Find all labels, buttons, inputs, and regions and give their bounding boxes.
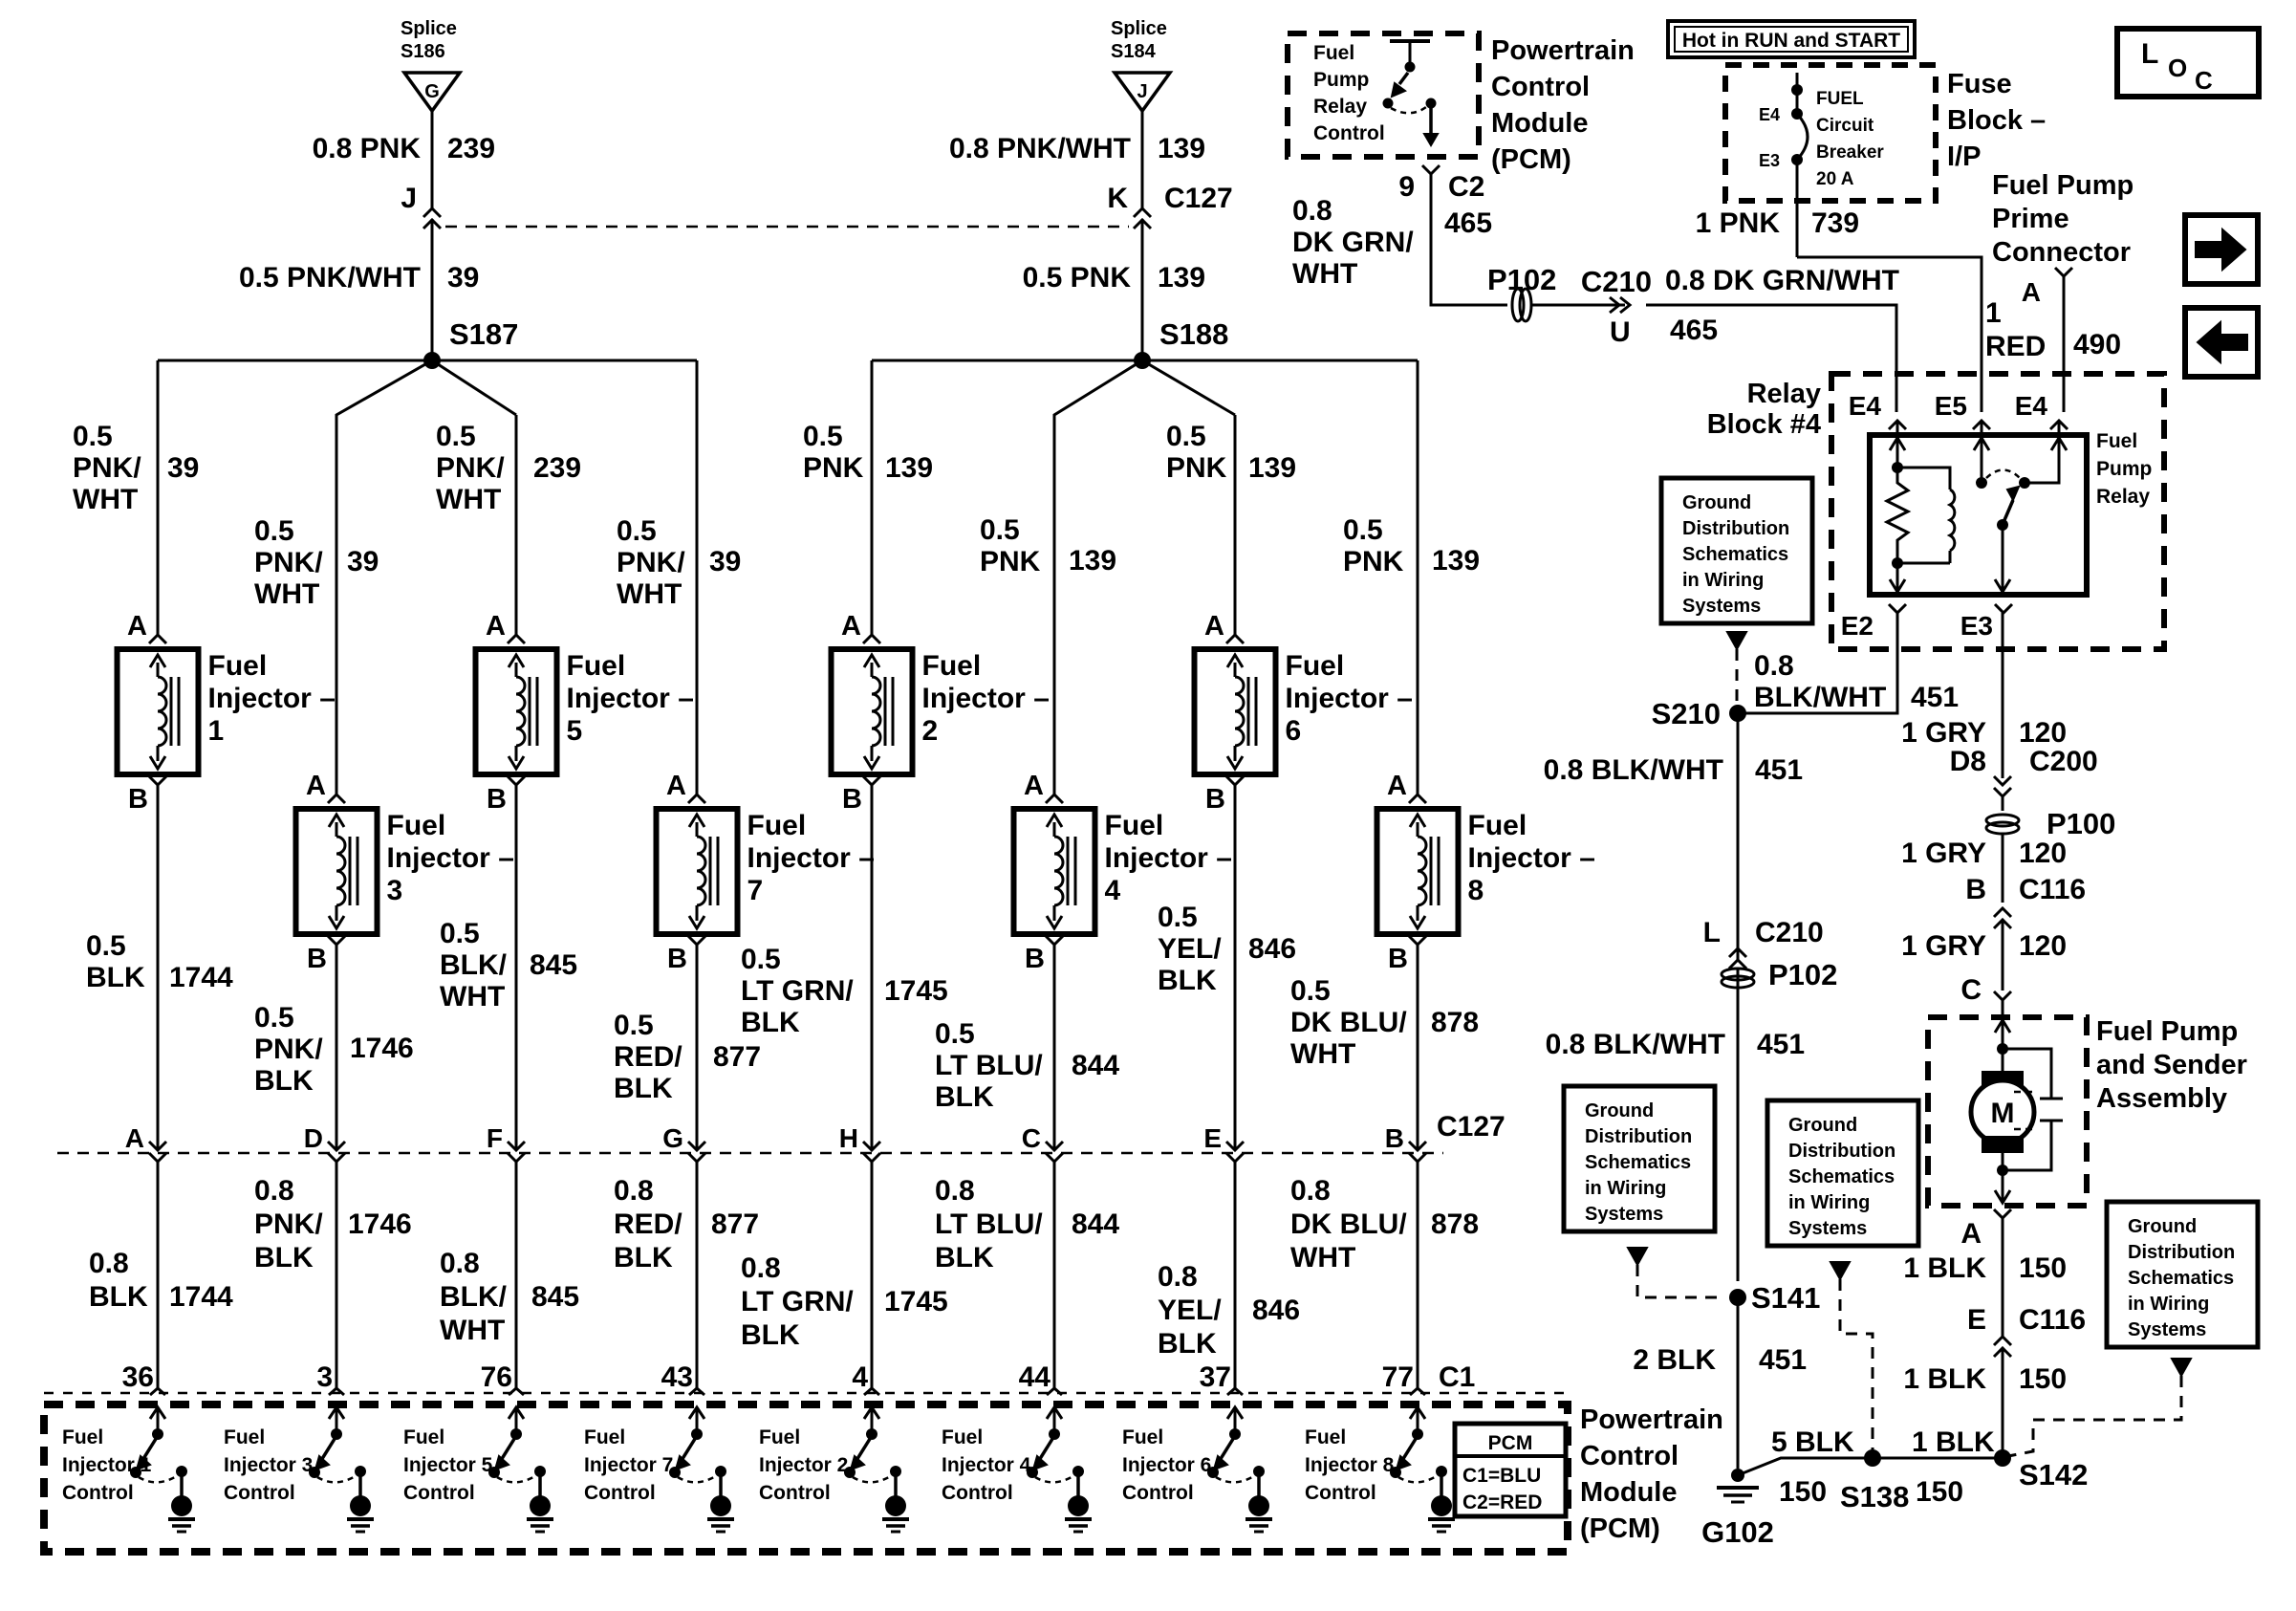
svg-text:Control: Control xyxy=(62,1482,134,1504)
svg-text:845: 845 xyxy=(530,949,577,981)
svg-text:0.5: 0.5 xyxy=(741,944,781,975)
wire 120 P100 to C116 xyxy=(2002,834,2004,903)
svg-text:Ground: Ground xyxy=(1682,492,1751,513)
wire 1 GRY 120 to fuel pump xyxy=(2002,920,2004,991)
label col3 0.5 PNK/WHT 39 xyxy=(254,515,379,610)
wire 451 to P102 xyxy=(1737,969,1740,1281)
wire C127 to PCM pin col8 xyxy=(1417,1162,1419,1388)
svg-text:Breaker: Breaker xyxy=(1816,142,1884,163)
svg-text:(PCM): (PCM) xyxy=(1491,144,1571,175)
svg-text:0.8 BLK/WHT: 0.8 BLK/WHT xyxy=(1544,754,1723,786)
svg-text:C200: C200 xyxy=(2029,746,2098,777)
svg-text:DK BLU/: DK BLU/ xyxy=(1290,1208,1407,1240)
svg-text:Control: Control xyxy=(1122,1482,1194,1504)
fuel pump prime connector pin A xyxy=(2022,268,2072,307)
svg-text:0.8: 0.8 xyxy=(1754,650,1794,682)
svg-text:0.5: 0.5 xyxy=(86,930,126,962)
svg-text:A: A xyxy=(486,611,506,642)
svg-text:Fuel: Fuel xyxy=(759,1426,800,1448)
triangle leader to S210 xyxy=(1727,632,1746,708)
svg-text:Control: Control xyxy=(942,1482,1013,1504)
svg-text:Fuel: Fuel xyxy=(1305,1426,1346,1448)
svg-text:Injector 4: Injector 4 xyxy=(942,1454,1031,1476)
svg-text:PNK/: PNK/ xyxy=(254,1034,323,1065)
svg-text:A: A xyxy=(1204,611,1224,642)
svg-text:A: A xyxy=(1960,1218,1982,1250)
svg-text:BLK/WHT: BLK/WHT xyxy=(1754,682,1886,713)
svg-text:in Wiring: in Wiring xyxy=(1788,1192,1870,1213)
svg-text:878: 878 xyxy=(1431,1007,1479,1038)
svg-text:1744: 1744 xyxy=(169,962,233,993)
label 0.5 PNK/BLK 1746 xyxy=(254,1002,414,1097)
svg-text:and Sender: and Sender xyxy=(2096,1050,2247,1080)
label 0.8 PNK/BLK 1746 xyxy=(254,1175,412,1274)
svg-text:BLK: BLK xyxy=(741,1007,800,1038)
wire S188 bus down col2 xyxy=(871,360,874,635)
splice S188 node xyxy=(1134,317,1228,369)
svg-text:36: 36 xyxy=(122,1361,154,1393)
svg-text:1 BLK: 1 BLK xyxy=(1903,1252,1986,1284)
ground distribution box left xyxy=(1564,1086,1715,1231)
svg-text:DK BLU/: DK BLU/ xyxy=(1290,1007,1407,1038)
svg-text:0.5: 0.5 xyxy=(935,1018,975,1050)
svg-text:5 BLK: 5 BLK xyxy=(1771,1426,1854,1458)
relay pins E2 E3 xyxy=(1841,604,2012,641)
svg-text:0.8: 0.8 xyxy=(1292,195,1332,227)
svg-text:PNK: PNK xyxy=(1343,546,1404,577)
svg-text:Schematics: Schematics xyxy=(1682,544,1788,565)
svg-text:C1=BLU: C1=BLU xyxy=(1462,1465,1541,1487)
svg-text:BLK: BLK xyxy=(86,962,145,993)
svg-text:1746: 1746 xyxy=(348,1208,412,1240)
svg-text:PNK: PNK xyxy=(1166,452,1227,484)
svg-text:0.8: 0.8 xyxy=(440,1248,480,1279)
svg-text:6: 6 xyxy=(1286,715,1302,747)
branch wire S188 to col4 xyxy=(1054,360,1142,795)
svg-text:S186: S186 xyxy=(401,41,445,62)
label E4 E3 fuse xyxy=(1759,105,1780,170)
svg-text:1744: 1744 xyxy=(169,1281,233,1313)
svg-text:1 GRY: 1 GRY xyxy=(1901,717,1986,749)
svg-text:LT GRN/: LT GRN/ xyxy=(741,975,854,1007)
svg-text:0.5: 0.5 xyxy=(73,421,113,452)
svg-text:BLK: BLK xyxy=(935,1242,994,1274)
label 0.8 BLK/WHT 451 bottom xyxy=(1546,1029,1805,1060)
svg-text:139: 139 xyxy=(885,452,933,484)
bus wire left from S187 xyxy=(158,359,697,362)
fuel injector 3 control switch xyxy=(309,1407,374,1532)
wire 1 BLK 150 to S142 xyxy=(2002,1348,2004,1458)
svg-text:8: 8 xyxy=(1468,875,1484,906)
svg-text:0.8 BLK/WHT: 0.8 BLK/WHT xyxy=(1546,1029,1725,1060)
svg-text:PNK/: PNK/ xyxy=(617,547,685,578)
label 1 GRY 120 b xyxy=(1901,838,2067,869)
svg-text:239: 239 xyxy=(447,133,495,164)
svg-text:0.8: 0.8 xyxy=(89,1248,129,1279)
svg-text:BLK: BLK xyxy=(89,1281,148,1313)
label 1 GRY 120 c xyxy=(1901,930,2067,962)
svg-text:C116: C116 xyxy=(2019,1304,2086,1336)
svg-text:WHT: WHT xyxy=(1290,1038,1355,1070)
label fuel injector 6 control xyxy=(1122,1426,1211,1504)
label powertrain control module top xyxy=(1491,35,1635,175)
svg-text:0.5 PNK/WHT: 0.5 PNK/WHT xyxy=(239,262,421,294)
label col1 0.5 PNK/WHT 39 xyxy=(73,421,199,515)
svg-text:Assembly: Assembly xyxy=(2096,1083,2227,1114)
hot in run and start box xyxy=(1668,21,1915,57)
svg-text:RED/: RED/ xyxy=(614,1208,682,1240)
svg-text:B: B xyxy=(1385,1123,1404,1153)
svg-text:877: 877 xyxy=(711,1208,759,1240)
label 1 BLK 150 a xyxy=(1903,1252,2067,1284)
svg-text:C127: C127 xyxy=(1437,1111,1505,1143)
svg-text:B: B xyxy=(1388,944,1408,974)
svg-text:5: 5 xyxy=(567,715,583,747)
svg-text:0.5: 0.5 xyxy=(436,421,476,452)
svg-text:139: 139 xyxy=(1069,545,1116,577)
svg-text:1745: 1745 xyxy=(884,1286,948,1317)
svg-text:7: 7 xyxy=(747,875,764,906)
svg-text:0.5: 0.5 xyxy=(440,918,480,949)
svg-text:3: 3 xyxy=(316,1361,333,1393)
svg-text:Injector –: Injector – xyxy=(1468,842,1595,874)
svg-text:P102: P102 xyxy=(1768,958,1837,991)
label 0.8 DK GRN/WHT 465 xyxy=(1292,195,1492,290)
svg-text:E: E xyxy=(1967,1304,1986,1336)
relay block 4 dashed box xyxy=(1831,374,2164,649)
svg-text:Distribution: Distribution xyxy=(1682,518,1789,539)
svg-text:Systems: Systems xyxy=(2128,1319,2206,1340)
fuel injector 2 control switch xyxy=(844,1407,909,1532)
label 0.8 LT BLU/BLK 844 xyxy=(935,1175,1119,1274)
svg-text:S141: S141 xyxy=(1751,1281,1820,1315)
splice S184 triangle xyxy=(1111,18,1170,111)
label fuel injector 2 control xyxy=(759,1426,848,1504)
label 0.8 PNK 239 xyxy=(313,133,495,164)
svg-text:Fuel: Fuel xyxy=(403,1426,444,1448)
svg-text:878: 878 xyxy=(1431,1208,1479,1240)
fuel pump relay xyxy=(1870,421,2087,595)
svg-text:877: 877 xyxy=(713,1041,761,1073)
label 0.8 BLK/WHT 845 xyxy=(440,1248,579,1346)
label 0.8 BLK/WHT 451 E2 xyxy=(1754,650,1959,713)
svg-text:739: 739 xyxy=(1811,207,1859,239)
svg-text:Fuel: Fuel xyxy=(62,1426,103,1448)
svg-text:Injector 6: Injector 6 xyxy=(1122,1454,1211,1476)
svg-text:PNK/: PNK/ xyxy=(254,547,323,578)
page nav right arrow box xyxy=(2185,215,2258,284)
svg-text:0.5: 0.5 xyxy=(1290,975,1331,1007)
svg-text:150: 150 xyxy=(2019,1363,2067,1395)
svg-text:44: 44 xyxy=(1019,1361,1051,1393)
splice S187 node xyxy=(423,317,518,369)
svg-text:1 GRY: 1 GRY xyxy=(1901,930,1986,962)
svg-text:WHT: WHT xyxy=(617,578,682,610)
svg-text:DK GRN/: DK GRN/ xyxy=(1292,227,1414,258)
svg-text:0.5: 0.5 xyxy=(1158,902,1198,933)
label fuel pump relay xyxy=(2096,430,2152,508)
ground distribution box middle xyxy=(1767,1100,1918,1246)
svg-text:Relay: Relay xyxy=(1747,379,1821,409)
fuel injector 1 xyxy=(118,611,336,815)
svg-text:Fuel: Fuel xyxy=(584,1426,625,1448)
PCM pin 9 C2 connector xyxy=(1398,165,1484,203)
svg-text:Systems: Systems xyxy=(1585,1204,1663,1225)
svg-text:490: 490 xyxy=(2073,329,2121,360)
label col7 0.5 PNK/WHT 39 xyxy=(617,515,741,610)
label 0.8 BLK/WHT 451 below S210 xyxy=(1544,754,1803,786)
branch wire S187 to col3 xyxy=(336,360,432,795)
svg-text:Control: Control xyxy=(403,1482,475,1504)
svg-text:Schematics: Schematics xyxy=(1788,1166,1895,1187)
svg-text:C116: C116 xyxy=(2019,874,2086,905)
svg-text:B: B xyxy=(667,944,687,974)
fuel pump assembly dashed box xyxy=(1928,1017,2087,1206)
fuel injector 7 xyxy=(657,771,875,974)
svg-text:S138: S138 xyxy=(1840,1480,1909,1513)
svg-text:Fuel: Fuel xyxy=(1122,1426,1163,1448)
svg-text:451: 451 xyxy=(1759,1344,1807,1376)
svg-text:Connector: Connector xyxy=(1992,237,2131,268)
fuel injector 3 xyxy=(296,771,514,974)
svg-text:E5: E5 xyxy=(1935,391,1967,421)
svg-text:39: 39 xyxy=(447,262,479,294)
svg-text:4: 4 xyxy=(1105,875,1121,906)
label fuel injector 8 control xyxy=(1305,1426,1395,1504)
svg-text:0.8: 0.8 xyxy=(741,1252,781,1284)
wire 465 C210 to relay E4 xyxy=(1646,305,1896,412)
svg-text:0.5: 0.5 xyxy=(254,1002,294,1034)
svg-text:844: 844 xyxy=(1072,1050,1119,1081)
fuel injector 1 control switch xyxy=(130,1407,195,1532)
svg-text:B: B xyxy=(307,944,327,974)
triangle leader to S141 xyxy=(1628,1248,1725,1297)
svg-text:Injector 2: Injector 2 xyxy=(759,1454,848,1476)
svg-text:A: A xyxy=(841,611,861,642)
label 1 RED 490 xyxy=(1985,297,2121,362)
ground G102 xyxy=(1701,1469,1774,1549)
label fuel injector 3 control xyxy=(224,1426,313,1504)
svg-text:Injector 1: Injector 1 xyxy=(62,1454,152,1476)
svg-text:WHT: WHT xyxy=(440,1315,505,1346)
connector C116 pin B xyxy=(1965,874,2086,928)
svg-text:C2=RED: C2=RED xyxy=(1462,1491,1542,1513)
svg-text:WHT: WHT xyxy=(1292,258,1357,290)
label 0.5 PNK/WHT 39 xyxy=(239,262,479,294)
label 1 BLK 150 bottom xyxy=(1912,1426,1995,1508)
ground distribution box right xyxy=(2107,1202,2258,1347)
svg-text:0.8: 0.8 xyxy=(614,1175,654,1207)
label 0.5 YEL/BLK 846 xyxy=(1158,902,1296,996)
wire 0.5 PNK 139 to S188 xyxy=(1141,219,1144,360)
svg-text:Injector –: Injector – xyxy=(1286,683,1413,714)
branch wire S188 to col6 xyxy=(1142,360,1235,635)
svg-text:S187: S187 xyxy=(449,317,518,351)
label 0.8 PNK/WHT 139 xyxy=(949,133,1205,164)
wire S187 bus down col7 xyxy=(696,360,699,795)
svg-text:C: C xyxy=(2195,66,2213,95)
svg-text:C210: C210 xyxy=(1581,265,1652,298)
svg-text:451: 451 xyxy=(1911,682,1959,713)
svg-text:B: B xyxy=(1025,944,1045,974)
svg-text:C210: C210 xyxy=(1755,917,1824,948)
label fuse block I/P xyxy=(1947,69,2046,172)
svg-text:9: 9 xyxy=(1398,171,1415,203)
wire injector 7 pin B to C127 xyxy=(696,945,699,1149)
svg-text:D8: D8 xyxy=(1950,746,1986,777)
wire 739 fuse to relay E5 xyxy=(1797,257,1982,412)
page locator LOC box xyxy=(2117,29,2259,97)
svg-text:I/P: I/P xyxy=(1947,142,1981,172)
svg-text:Distribution: Distribution xyxy=(2128,1242,2235,1263)
svg-text:Fuel: Fuel xyxy=(567,650,626,682)
label fuel pump prime connector xyxy=(1992,170,2134,268)
svg-text:0.8: 0.8 xyxy=(935,1175,975,1207)
svg-text:1745: 1745 xyxy=(884,975,948,1007)
fuel injector 4 xyxy=(1014,771,1232,974)
svg-text:0.8: 0.8 xyxy=(1158,1261,1198,1293)
svg-text:Schematics: Schematics xyxy=(1585,1152,1691,1173)
label fuel pump relay control xyxy=(1313,42,1385,144)
svg-text:37: 37 xyxy=(1200,1361,1231,1393)
wire S187 bus down col1 xyxy=(157,360,160,635)
svg-text:PCM: PCM xyxy=(1488,1432,1533,1454)
svg-text:2: 2 xyxy=(922,715,939,747)
svg-text:A: A xyxy=(1024,771,1044,801)
svg-text:0.5: 0.5 xyxy=(1343,514,1383,546)
fuel pump connector pin C xyxy=(1960,974,2011,1006)
svg-text:BLK: BLK xyxy=(254,1242,314,1274)
svg-text:0.8 PNK: 0.8 PNK xyxy=(313,133,422,164)
svg-text:Prime: Prime xyxy=(1992,204,2069,234)
svg-text:Systems: Systems xyxy=(1682,596,1761,617)
svg-text:WHT: WHT xyxy=(440,981,505,1012)
svg-text:S184: S184 xyxy=(1111,41,1157,62)
svg-text:Injector –: Injector – xyxy=(208,683,336,714)
fuel injector 6 control switch xyxy=(1207,1407,1272,1532)
svg-text:Injector 8: Injector 8 xyxy=(1305,1454,1395,1476)
svg-text:BLK: BLK xyxy=(254,1065,314,1097)
relay block pin labels E4 E5 E4 xyxy=(1849,391,2068,429)
wire S188 bus down col8 xyxy=(1417,360,1419,795)
svg-text:120: 120 xyxy=(2019,838,2067,869)
wire 465 P102 to C210 xyxy=(1531,304,1625,307)
svg-text:in Wiring: in Wiring xyxy=(1682,570,1764,591)
label 0.5 LT BLU/BLK 844 xyxy=(935,1018,1119,1113)
splice S141 xyxy=(1729,1281,1820,1315)
svg-text:Control: Control xyxy=(584,1482,656,1504)
svg-text:G: G xyxy=(662,1123,683,1153)
svg-text:Injector 7: Injector 7 xyxy=(584,1454,673,1476)
connector C116 pin E xyxy=(1967,1304,2086,1357)
connector C1 dashed line with pin numbers xyxy=(44,1361,1568,1395)
connector C127 pin J chevrons xyxy=(401,183,441,229)
label 0.8 LT GRN/BLK 1745 xyxy=(741,1252,948,1351)
svg-text:Powertrain: Powertrain xyxy=(1580,1404,1723,1435)
svg-text:Fuel: Fuel xyxy=(922,650,982,682)
label 1 GRY 120 a xyxy=(1901,717,2067,749)
svg-text:E: E xyxy=(1203,1123,1222,1153)
ground distribution box top xyxy=(1661,478,1812,623)
svg-text:PNK/: PNK/ xyxy=(436,452,505,484)
svg-text:G: G xyxy=(424,81,440,102)
svg-text:B: B xyxy=(842,784,862,815)
svg-text:S188: S188 xyxy=(1159,317,1228,351)
svg-text:A: A xyxy=(306,771,326,801)
label 0.8 DK GRN/WHT right xyxy=(1665,265,1899,346)
svg-text:S210: S210 xyxy=(1652,697,1721,730)
wire 0.8 DK GRN/WHT 465 xyxy=(1431,174,1507,305)
connector C210 pin L xyxy=(1703,917,1824,969)
svg-text:U: U xyxy=(1610,316,1631,348)
svg-text:PNK/: PNK/ xyxy=(73,452,141,484)
svg-text:A: A xyxy=(2022,277,2041,307)
svg-text:LT GRN/: LT GRN/ xyxy=(741,1286,854,1317)
svg-text:in Wiring: in Wiring xyxy=(1585,1178,1666,1199)
svg-text:G102: G102 xyxy=(1701,1515,1774,1549)
svg-text:Pump: Pump xyxy=(2096,458,2152,480)
svg-text:A: A xyxy=(1387,771,1407,801)
svg-text:0.8: 0.8 xyxy=(1290,1175,1331,1207)
svg-text:E4: E4 xyxy=(1849,391,1882,421)
svg-text:139: 139 xyxy=(1158,133,1205,164)
svg-text:WHT: WHT xyxy=(254,578,319,610)
svg-text:39: 39 xyxy=(167,452,199,484)
svg-text:P100: P100 xyxy=(2047,807,2115,840)
label 0.5 DK BLU/WHT 878 xyxy=(1290,975,1479,1070)
splice S138 xyxy=(1840,1449,1909,1513)
svg-text:Control: Control xyxy=(1305,1482,1376,1504)
svg-text:B: B xyxy=(1965,874,1986,905)
svg-text:0.5: 0.5 xyxy=(617,515,657,547)
svg-text:S142: S142 xyxy=(2019,1458,2088,1491)
label col5 0.5 PNK/WHT 239 xyxy=(436,421,581,515)
label fuel injector 1 control xyxy=(62,1426,152,1504)
svg-text:0.8: 0.8 xyxy=(254,1175,294,1207)
label fuel injector 7 control xyxy=(584,1426,673,1504)
svg-text:465: 465 xyxy=(1444,207,1492,239)
svg-text:B: B xyxy=(487,784,507,815)
svg-text:RED: RED xyxy=(1985,331,2046,362)
connector C127 dashed line xyxy=(57,1152,1443,1155)
fuel pump pin A xyxy=(1960,1209,2011,1250)
svg-text:Injector 3: Injector 3 xyxy=(224,1454,313,1476)
svg-text:150: 150 xyxy=(2019,1252,2067,1284)
svg-text:139: 139 xyxy=(1158,262,1205,294)
svg-text:Block –: Block – xyxy=(1947,105,2046,136)
svg-text:1 GRY: 1 GRY xyxy=(1901,838,1986,869)
svg-text:845: 845 xyxy=(531,1281,579,1313)
svg-text:39: 39 xyxy=(709,546,741,577)
svg-text:844: 844 xyxy=(1072,1208,1119,1240)
connector P102 grommet bottom xyxy=(1722,958,1837,991)
connector C127 pin K chevrons xyxy=(1107,183,1232,229)
label fuel injector 4 control xyxy=(942,1426,1031,1504)
svg-text:D: D xyxy=(304,1123,323,1153)
svg-text:139: 139 xyxy=(1432,545,1480,577)
svg-text:Relay: Relay xyxy=(1313,96,1367,118)
svg-text:Block #4: Block #4 xyxy=(1707,409,1821,440)
svg-text:BLK: BLK xyxy=(614,1073,673,1104)
label 0.5 LT GRN/BLK 1745 xyxy=(741,944,948,1038)
svg-text:Ground: Ground xyxy=(1585,1100,1654,1121)
svg-text:J: J xyxy=(401,183,417,214)
svg-text:Fuel: Fuel xyxy=(1286,650,1345,682)
svg-text:LT BLU/: LT BLU/ xyxy=(935,1208,1043,1240)
label 0.8 RED/BLK 877 xyxy=(614,1175,759,1274)
svg-text:Fuel: Fuel xyxy=(1468,810,1527,841)
fuel injector 6 xyxy=(1195,611,1413,815)
